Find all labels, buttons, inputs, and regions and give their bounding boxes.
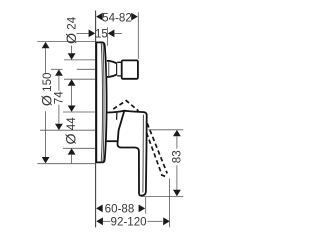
dimension Ø44 bottom extension line [63, 147, 96, 149]
dimension 74 bottom arrow [55, 124, 63, 130]
dimension 83 line [176, 137, 178, 149]
dimension Ø44 bottom arrow with tail [68, 148, 76, 154]
dimension 54-82 right arrow [131, 13, 138, 21]
svg-text:60-88: 60-88 [105, 203, 135, 216]
dimension 54-82 left arrow [96, 13, 103, 21]
spout ring groove [117, 62, 122, 76]
plate front rim line 2 [102, 43, 105, 161]
svg-text:Ø 44: Ø 44 [64, 117, 80, 145]
dimension Ø150 top arrow [42, 42, 50, 48]
dimension Ø44 top extension line [63, 111, 96, 113]
dimension 74 line [58, 76, 60, 91]
flange base line [108, 61, 110, 77]
lever joint notch [116, 112, 118, 119]
lever handle closed position [117, 111, 146, 196]
dimension 54-82 right extension line [137, 12, 139, 59]
spout stub cylinder Ø24 [122, 60, 138, 78]
dimension 60-88 right arrow [139, 205, 146, 213]
dimension 15 left arrow with tail [77, 32, 89, 34]
dimension Ø24 bottom arrow with tail [68, 79, 76, 85]
dimension 83 top arrow [173, 130, 181, 136]
svg-text:92-120: 92-120 [111, 216, 147, 229]
dimension 83 bottom extension line [141, 196, 183, 198]
svg-text:74: 74 [53, 91, 66, 104]
dimension Ø24 top extension line [64, 59, 96, 61]
dimension 60-88 left arrow [96, 205, 103, 213]
dimension Ø24 bottom extension line [64, 78, 96, 80]
svg-text:15: 15 [95, 28, 108, 41]
dimension Ø150 line [45, 48, 47, 74]
dimension Ø24 top arrow with tail [71, 46, 73, 54]
svg-text:Ø 24: Ø 24 [64, 16, 80, 44]
dimension Ø44 top arrow [68, 106, 76, 112]
svg-text:83: 83 [171, 150, 184, 163]
dimension 83 bottom arrow [173, 190, 181, 196]
handle boss bottom edge [107, 140, 118, 142]
escutcheon plate (side view, Ø150) [96, 42, 106, 162]
lever handle open position (dashed) shoulder [113, 101, 138, 111]
dimension 92-120 left arrow with stub [96, 217, 103, 225]
handle axis extension line [40, 129, 96, 131]
handle boss top edge [107, 111, 125, 113]
dashed grip upper edge [147, 123, 167, 173]
dimension 15 right extension line [107, 27, 109, 46]
dimension 92-120 right arrow with stub [147, 220, 162, 222]
lever grip detail line [142, 115, 145, 193]
spout flange cone [107, 61, 117, 77]
dimension 60-88 right extension line [145, 197, 147, 213]
dimension 83 top extension line [148, 129, 183, 131]
spout axis extension line [51, 68, 63, 70]
dimension 92-120 right extension line [169, 179, 171, 228]
svg-text:54-82: 54-82 [102, 11, 132, 24]
dimension 15 right arrow with tail [108, 30, 115, 38]
dimension Ø150 bottom arrow [42, 157, 50, 163]
wall reference line [95, 11, 97, 228]
dimension 74 top arrow [55, 69, 63, 75]
plate front rim line 1 [101, 43, 102, 162]
dimension Ø150 top extension line [37, 41, 95, 43]
dimension Ø150 bottom extension line [37, 163, 96, 165]
dashed grip tip [161, 175, 167, 177]
dashed grip lower edge [147, 133, 162, 175]
